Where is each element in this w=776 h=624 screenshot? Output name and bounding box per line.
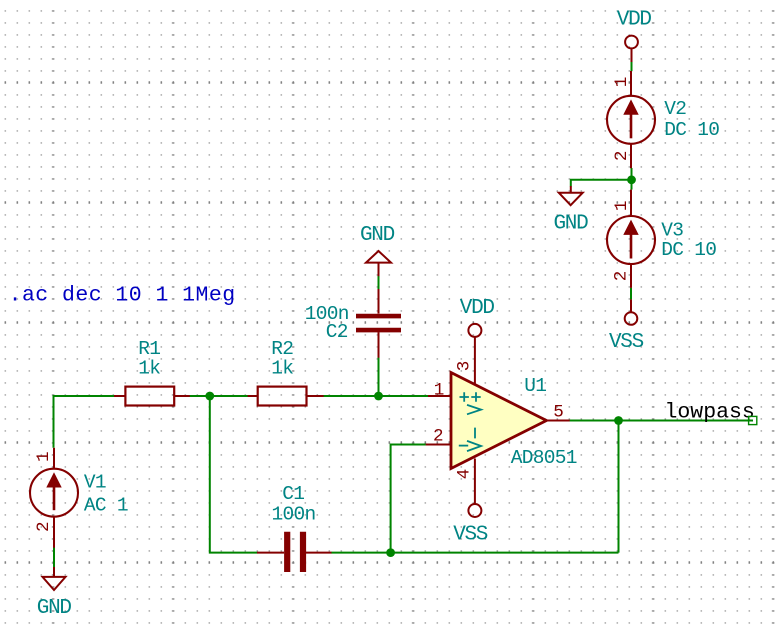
wire — [631, 180, 633, 190]
svg-text:5: 5 — [553, 403, 564, 423]
svg-text:2: 2 — [612, 151, 632, 162]
svg-text:1: 1 — [612, 201, 632, 212]
ground left of V2 V3 junction — [559, 186, 583, 205]
power VDD above op-amp — [468, 324, 481, 337]
voltage source V2 — [607, 71, 655, 168]
svg-text:C2: C2 — [326, 321, 348, 343]
capacitor C1 — [257, 532, 332, 572]
svg-text:GND: GND — [360, 224, 395, 247]
resistor R2 — [248, 387, 324, 406]
svg-text:DC 10: DC 10 — [661, 239, 716, 261]
wire — [618, 421, 620, 553]
wire — [210, 395, 248, 397]
svg-text:VSS: VSS — [453, 524, 488, 547]
junction — [374, 392, 383, 401]
label anchor square — [749, 416, 757, 424]
power VSS below V3 — [625, 299, 638, 324]
svg-text:V2: V2 — [664, 98, 686, 120]
wire — [631, 168, 633, 180]
V+ marker — [467, 392, 481, 414]
svg-text:1: 1 — [612, 77, 632, 88]
svg-text:DC 10: DC 10 — [664, 119, 719, 141]
plus input marker — [460, 392, 469, 401]
wire — [391, 445, 426, 553]
wire — [631, 62, 633, 71]
wire — [378, 276, 380, 289]
svg-text:VSS: VSS — [609, 331, 644, 354]
capacitor C2 — [356, 289, 401, 358]
svg-text:2: 2 — [433, 427, 444, 447]
wire — [210, 396, 257, 553]
wire — [630, 288, 632, 300]
svg-text:C1: C1 — [282, 483, 304, 505]
wire — [190, 395, 211, 397]
svg-text:1k: 1k — [138, 357, 160, 379]
minus input marker — [459, 445, 468, 447]
wire — [378, 358, 380, 397]
junction — [205, 392, 214, 401]
junction — [614, 416, 623, 425]
wire — [571, 180, 632, 187]
svg-text:1: 1 — [34, 451, 54, 462]
svg-text:lowpass: lowpass — [665, 401, 755, 425]
svg-text:V1: V1 — [84, 471, 106, 493]
wire — [331, 552, 618, 554]
svg-text:AC 1: AC 1 — [84, 495, 128, 517]
svg-text:3: 3 — [455, 361, 475, 372]
svg-text:AD8051: AD8051 — [511, 447, 577, 469]
V- marker — [467, 428, 481, 452]
svg-text:1: 1 — [434, 381, 445, 401]
svg-text:GND: GND — [554, 213, 589, 236]
resistor R1 — [114, 387, 190, 406]
svg-text:.ac dec 10 1 1Meg: .ac dec 10 1 1Meg — [9, 284, 236, 308]
svg-text:VDD: VDD — [460, 297, 495, 320]
svg-text:GND: GND — [37, 597, 72, 620]
ground below V1 — [43, 567, 66, 590]
wire — [54, 396, 115, 448]
svg-text:V3: V3 — [661, 219, 683, 241]
junction — [627, 175, 636, 184]
svg-text:2: 2 — [34, 521, 54, 532]
power VSS below op-amp — [468, 504, 481, 517]
svg-text:4: 4 — [455, 469, 475, 480]
svg-text:2: 2 — [612, 271, 632, 282]
svg-text:1k: 1k — [271, 357, 293, 379]
wire — [570, 420, 754, 422]
wire — [53, 548, 55, 568]
wire — [379, 395, 429, 397]
voltage source V1 — [30, 448, 78, 548]
svg-text:100n: 100n — [272, 504, 316, 526]
svg-text:VDD: VDD — [617, 9, 652, 32]
voltage source V3 — [607, 190, 655, 288]
op-amp U1 — [426, 337, 570, 504]
svg-text:U1: U1 — [524, 375, 546, 397]
power VDD top right — [625, 36, 638, 62]
junction — [386, 548, 395, 557]
ground above C2 — [366, 251, 391, 276]
wire — [323, 395, 378, 397]
